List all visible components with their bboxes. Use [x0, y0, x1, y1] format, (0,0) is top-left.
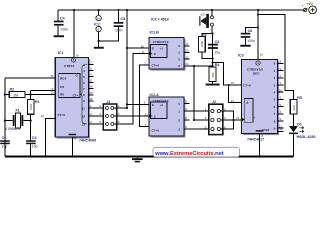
+9V terminal	[302, 2, 317, 14]
svg-text:13: 13	[185, 55, 189, 59]
IC1 output stubs and wires to J1	[82, 61, 105, 127]
svg-text:16: 16	[260, 53, 264, 57]
svg-text:10: 10	[279, 88, 283, 92]
IC1 label	[79, 139, 96, 143]
0V bottom supply rail	[5, 156, 294, 158]
IC1 pin8 ground	[69, 134, 77, 158]
svg-text:R5: R5	[297, 96, 302, 100]
wire node to IC3 reset (CT=0 pin15)	[213, 63, 244, 103]
svg-text:CT=0: CT=0	[243, 83, 251, 87]
svg-text:15: 15	[89, 97, 93, 101]
svg-text:C5: C5	[121, 17, 126, 21]
svg-text:15: 15	[231, 81, 235, 85]
svg-text:11: 11	[185, 42, 188, 46]
connector J1	[99, 100, 119, 130]
IC1 reset pin12 to ground	[41, 114, 56, 158]
svg-text:+1: +1	[160, 47, 164, 51]
svg-text:R2: R2	[10, 88, 15, 92]
resistor R5	[290, 96, 302, 126]
wire IC2.B out3 (pin14) to node and J2	[184, 65, 213, 121]
svg-text:E: E	[152, 103, 154, 107]
svg-text:R1: R1	[35, 100, 40, 104]
capacitor C4	[54, 10, 69, 37]
svg-text:IC2 = 4518: IC2 = 4518	[151, 17, 169, 21]
IC1 left input wires	[4, 74, 56, 100]
svg-text:E: E	[152, 47, 154, 51]
wire rail to IC2 enables (V1)	[126, 9, 128, 108]
svg-text:HSDL-4230: HSDL-4230	[297, 135, 316, 139]
svg-text:10p: 10p	[32, 144, 38, 148]
svg-text:C6: C6	[248, 29, 253, 33]
svg-text:4.096MHz: 4.096MHz	[5, 127, 21, 131]
svg-text:13: 13	[82, 122, 86, 126]
svg-text:10M: 10M	[29, 104, 33, 110]
svg-text:12: 12	[185, 49, 189, 53]
svg-text:C1: C1	[2, 136, 7, 140]
svg-text:14: 14	[236, 116, 240, 120]
+9V top supply rail	[58, 9, 304, 11]
IC2.A 4518 counter	[144, 93, 188, 138]
svg-text:R3: R3	[202, 33, 207, 37]
svg-text:C4: C4	[60, 17, 65, 21]
svg-text:C2: C2	[32, 136, 37, 140]
svg-text:+: +	[302, 4, 304, 8]
svg-text:10u: 10u	[214, 51, 220, 55]
svg-text:CTRDIV10: CTRDIV10	[153, 40, 169, 44]
wire rail to IC1 pin16	[73, 9, 79, 58]
svg-text:RX: RX	[60, 93, 64, 97]
svg-text:10: 10	[141, 44, 145, 48]
svg-text:CT=: CT=	[73, 94, 79, 98]
svg-text:74HC4060: 74HC4060	[79, 139, 96, 143]
svg-text:1M: 1M	[13, 94, 18, 98]
svg-text:DEC: DEC	[253, 72, 260, 76]
J1 output wires	[114, 54, 150, 125]
wire IC2 resets (V3)	[140, 65, 150, 127]
buzzer BZ1	[199, 9, 213, 34]
IC2.B 4518 counter	[141, 30, 190, 70]
svg-text:CX: CX	[60, 85, 64, 89]
svg-text:IC2: IC2	[94, 22, 100, 26]
svg-text:11: 11	[279, 124, 282, 128]
svg-text:13: 13	[231, 99, 235, 103]
svg-text:IC3: IC3	[238, 53, 244, 57]
svg-text:11: 11	[50, 74, 53, 78]
resistor R1	[28, 100, 40, 121]
capacitor C3	[208, 40, 220, 54]
capacitor C6	[240, 26, 259, 46]
wire V1 taps	[126, 47, 149, 106]
website label	[153, 147, 240, 157]
svg-text:CT=0: CT=0	[58, 113, 66, 117]
svg-text:12: 12	[82, 114, 86, 118]
ground symbol on 0V rail	[132, 156, 143, 163]
svg-text:BZ1: BZ1	[201, 13, 207, 17]
svg-text:CT=0: CT=0	[152, 64, 160, 68]
LED D1 (IR)	[289, 123, 315, 157]
svg-text:D1: D1	[297, 123, 302, 127]
svg-text:C3: C3	[215, 40, 220, 44]
svg-text:100n: 100n	[247, 39, 255, 43]
svg-text:+1: +1	[160, 103, 164, 107]
capacitor C5	[99, 9, 126, 41]
svg-text:13: 13	[89, 91, 93, 95]
svg-text:14: 14	[89, 85, 93, 89]
capacitor C2	[26, 121, 38, 158]
svg-text:J1: J1	[106, 100, 110, 104]
svg-text:IC2.A: IC2.A	[150, 93, 160, 97]
svg-text:R4: R4	[215, 63, 220, 67]
svg-text:220: 220	[292, 105, 296, 110]
wire rail to IC3 pin16	[257, 9, 263, 59]
svg-text:RCX: RCX	[60, 76, 66, 80]
IC2.A output wires to J2	[184, 104, 211, 130]
svg-text:14: 14	[185, 62, 189, 66]
svg-text:10: 10	[50, 91, 54, 95]
left rail vertical	[4, 78, 6, 157]
IC3 output stubs	[274, 60, 284, 132]
capacitor C1	[0, 121, 10, 157]
crystal X1	[4, 109, 32, 131]
svg-text:+: +	[254, 115, 256, 119]
wire +9V to R5/D1 branch	[258, 15, 294, 100]
svg-text:www.ExtremeCircuits.net: www.ExtremeCircuits.net	[154, 151, 223, 157]
svg-text:X1: X1	[15, 109, 19, 113]
svg-text:100n: 100n	[61, 27, 69, 31]
svg-text:CT=0: CT=0	[152, 129, 160, 133]
svg-text:100k: 100k	[200, 40, 204, 47]
svg-text:16: 16	[97, 16, 101, 20]
svg-text:J2: J2	[212, 100, 216, 104]
resistor R3	[198, 33, 212, 59]
node battery/R3/C3	[212, 32, 214, 67]
IC3 label	[247, 137, 264, 141]
IC1 74HC4060	[55, 51, 90, 139]
svg-text:+9V: +9V	[307, 2, 314, 6]
svg-text:10k: 10k	[211, 72, 215, 77]
IC3 pin8 ground	[256, 130, 264, 158]
svg-text:100n: 100n	[115, 29, 123, 33]
resistor R2	[9, 88, 25, 98]
svg-text:11: 11	[82, 106, 86, 110]
IC2 power connections (pins 16/8)	[94, 9, 104, 49]
svg-text:CTR14: CTR14	[64, 64, 74, 68]
svg-text:12: 12	[41, 114, 45, 118]
IC3 74HC4017	[231, 53, 283, 135]
svg-text:IC2.B: IC2.B	[150, 30, 160, 34]
J2 output wires to IC3 clock	[221, 111, 242, 129]
connector J2	[205, 100, 226, 135]
svg-text:10p: 10p	[2, 144, 8, 148]
svg-text:IC1: IC1	[58, 51, 64, 55]
resistor R4	[206, 63, 220, 86]
IC2 = 4518 label	[151, 17, 169, 21]
